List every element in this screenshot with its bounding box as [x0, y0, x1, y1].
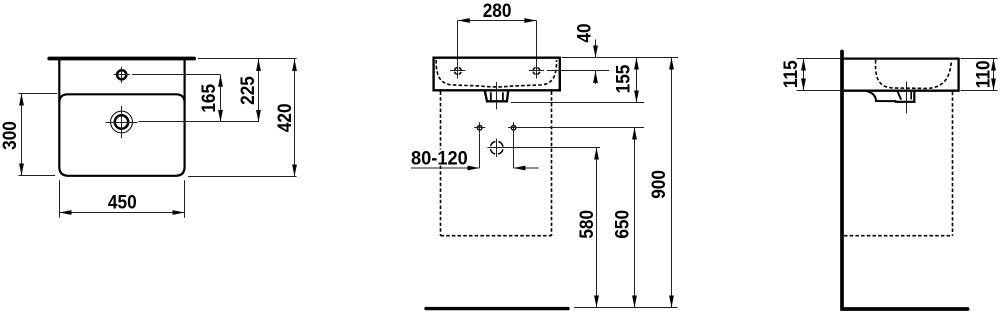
svg-text:420: 420	[273, 103, 295, 132]
dimension 450 line	[60, 212, 185, 214]
dimension 280 line	[458, 20, 537, 22]
dimension 165 line	[220, 75, 222, 122]
svg-text:580: 580	[575, 210, 597, 239]
drain inner slant (side view)	[897, 91, 901, 99]
left wall fixing cross	[477, 126, 482, 131]
svg-text:300: 300	[0, 121, 20, 150]
pedestal outline dashed left (front view)	[440, 92, 442, 236]
extension line from drain to 225 dim	[139, 121, 259, 123]
pedestal outline dashed right (side view)	[952, 92, 954, 236]
dimension 155 line	[636, 58, 638, 103]
drain crosshair	[106, 122, 138, 124]
drain inner circle (plan view)	[115, 115, 128, 128]
dimension 580 line	[596, 148, 598, 308]
drain outlet (front view)	[485, 91, 508, 101]
witness line bottom for 110	[961, 90, 998, 92]
extension line from tap hole to 165 dim	[132, 74, 221, 76]
svg-text:165: 165	[197, 84, 219, 113]
drain inner wall (side view)	[910, 92, 912, 99]
witness line bottom for 300	[19, 175, 56, 177]
basin profile (side view)	[844, 59, 959, 91]
right fixing hole (front view)	[533, 68, 540, 75]
svg-text:80-120: 80-120	[411, 148, 468, 170]
dimension 420 line	[294, 59, 296, 177]
svg-text:280: 280	[483, 0, 512, 21]
wall line (plan view)	[49, 57, 194, 61]
extension line trap right	[504, 147, 600, 149]
drain centerline (side view)	[906, 82, 908, 114]
extension line fixing cross right	[519, 127, 645, 129]
witness line right for 280	[536, 21, 538, 67]
drain outer circle (plan view)	[111, 111, 133, 133]
bottom extension line to 420 dim	[188, 176, 297, 178]
extension line basin top right	[562, 57, 678, 59]
extension line outlet bottom right	[511, 102, 644, 104]
basin outline (front view)	[434, 58, 560, 91]
witness line top for 115	[797, 58, 841, 60]
dimension 900 line	[671, 58, 673, 308]
svg-text:155: 155	[611, 65, 633, 94]
witness line top for 110	[961, 58, 998, 60]
svg-text:650: 650	[610, 210, 632, 239]
drain centerline (front view)	[496, 82, 498, 110]
witness line bottom for 115	[797, 90, 841, 92]
witness line top for 300	[19, 93, 58, 95]
dimension 650 line	[634, 128, 636, 308]
drain box (side view)	[896, 91, 914, 102]
witness line right for 450	[184, 180, 186, 218]
left fixing hole (front view)	[454, 68, 461, 75]
extension line floor right	[574, 307, 678, 309]
right wall fixing cross	[511, 126, 516, 131]
trap connection circle (dashed)	[490, 141, 503, 154]
tap hole crosshair	[114, 74, 130, 76]
dimension 80-120 label halo	[408, 150, 471, 166]
witness line left for 450	[59, 180, 61, 218]
svg-text:900: 900	[647, 170, 669, 199]
drain outlet inner wall right	[502, 92, 504, 100]
dimension 115 line	[803, 59, 805, 91]
pedestal outline dashed bottom (side view)	[844, 235, 953, 237]
witness below left cross	[479, 134, 481, 169]
bowl rim (plan view)	[59, 94, 184, 103]
basin outline (plan view)	[59, 59, 184, 176]
top extension line to 420 dim	[198, 58, 297, 60]
witness below right cross	[513, 134, 515, 169]
svg-text:110: 110	[971, 60, 993, 88]
dimension 225 line	[258, 59, 260, 122]
hidden bowl contour (side view, dashed)	[876, 60, 952, 88]
left fixing hole crosshair	[450, 70, 465, 72]
extension line hole level right	[547, 70, 609, 72]
dimension 80-120 left line with arrow	[411, 167, 480, 169]
trap connection crosshair	[488, 147, 506, 149]
wall and floor lines (side view)	[842, 52, 968, 310]
dimension 80-120 right line with arrow	[514, 167, 539, 169]
basin underside lip (side view)	[867, 91, 896, 101]
tap hole (plan view)	[117, 70, 126, 79]
svg-text:40: 40	[572, 23, 594, 42]
pedestal outline dashed right (front view)	[551, 92, 553, 236]
witness line left for 280	[457, 21, 459, 67]
svg-text:115: 115	[779, 60, 801, 88]
svg-text:450: 450	[108, 191, 137, 213]
hidden bowl contour (front view, dashed)	[436, 60, 556, 87]
dimension 110 line	[993, 59, 995, 91]
dimension 40 lower arrow	[595, 71, 597, 84]
floor line (front view)	[426, 307, 568, 310]
dimension 300 line	[21, 94, 23, 176]
svg-text:225: 225	[236, 76, 258, 105]
right fixing hole crosshair	[529, 70, 544, 72]
dimension 40 upper arrow	[595, 40, 597, 58]
drain outlet inner wall left	[490, 92, 492, 100]
pedestal outline dashed bottom (front view)	[441, 235, 552, 237]
